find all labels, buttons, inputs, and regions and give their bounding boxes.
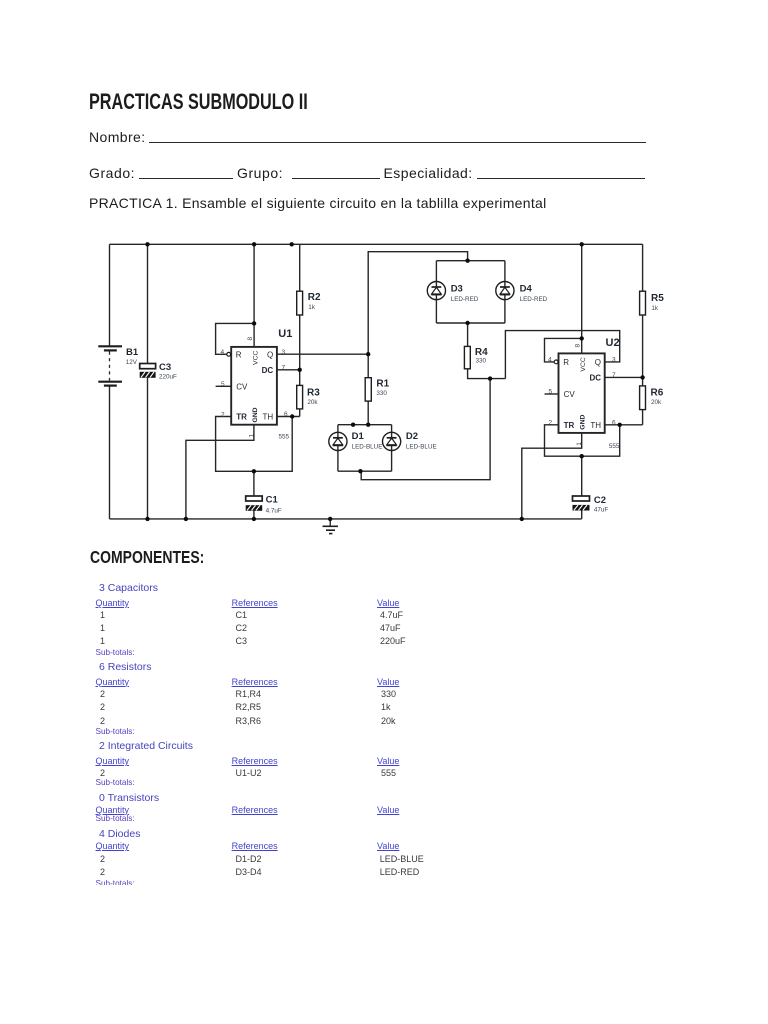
svg-text:47uF: 47uF — [594, 507, 609, 514]
svg-text:12V: 12V — [126, 359, 138, 366]
wire LED return link — [361, 379, 490, 480]
svg-text:20k: 20k — [307, 399, 318, 406]
wire C1 branch — [253, 471, 255, 519]
wire U1 pin 5 CV stub — [216, 385, 232, 387]
svg-text:Q: Q — [595, 358, 601, 367]
wire U2 TH pin 6 — [605, 424, 643, 426]
wire D1 D2 parallel frame — [338, 425, 392, 472]
capacitor C1 — [246, 495, 282, 515]
node U1 pin4 loop — [252, 321, 256, 325]
wire C2 branch — [581, 456, 583, 519]
node U1 th — [290, 414, 294, 418]
op-amp U2 555 timer body — [548, 337, 620, 450]
svg-text:555: 555 — [609, 443, 620, 450]
svg-text:6: 6 — [284, 411, 288, 418]
wire bottom rail — [110, 518, 582, 520]
node U1 dc — [298, 368, 302, 372]
junction dots — [145, 242, 645, 521]
svg-text:U1: U1 — [278, 328, 292, 340]
svg-text:VCC: VCC — [580, 357, 587, 371]
svg-text:2: 2 — [549, 420, 553, 427]
svg-text:D2: D2 — [406, 431, 418, 442]
nombre label — [89, 130, 145, 144]
especialidad blank line — [477, 178, 645, 179]
node R4 bottom — [488, 376, 492, 380]
svg-text:TH: TH — [263, 413, 274, 422]
resistor R6 — [640, 386, 664, 410]
battery B1 — [98, 346, 139, 385]
node D1 D2 bottom — [358, 469, 362, 473]
svg-text:555: 555 — [279, 434, 290, 441]
svg-text:GND: GND — [252, 407, 259, 422]
svg-text:R2: R2 — [308, 292, 321, 303]
svg-text:C1: C1 — [266, 495, 279, 506]
svg-text:C2: C2 — [594, 495, 606, 506]
section 3 Capacitors — [99, 583, 158, 594]
capacitor C2 — [573, 495, 609, 514]
wire U2 Q link to R4 node — [505, 331, 619, 379]
node C1 bottom — [252, 517, 256, 521]
svg-text:C3: C3 — [159, 362, 171, 373]
node C2 top — [580, 454, 584, 458]
resistor R1 — [365, 378, 389, 401]
crop cover — [0, 885, 768, 1024]
node D1 D2 top r1 — [366, 423, 370, 427]
nombre blank line — [149, 142, 646, 143]
svg-text:3: 3 — [612, 357, 616, 364]
svg-text:7: 7 — [612, 372, 616, 379]
svg-text:B1: B1 — [126, 347, 139, 358]
svg-text:LED-BLUE: LED-BLUE — [352, 444, 383, 451]
node D3 D4 bottom — [465, 321, 469, 325]
svg-text:4: 4 — [221, 349, 225, 356]
svg-text:R4: R4 — [475, 347, 488, 358]
section 4 Diodes — [99, 829, 140, 840]
svg-text:R1: R1 — [376, 379, 389, 390]
wire U2 pin 1 to ground rail — [522, 433, 582, 519]
svg-text:CV: CV — [236, 382, 248, 391]
section 6 Resistors — [99, 662, 152, 673]
svg-text:R: R — [236, 350, 242, 359]
svg-text:8: 8 — [575, 344, 582, 348]
diode D4 LED-RED — [496, 282, 548, 304]
svg-text:TH: TH — [590, 421, 601, 430]
svg-text:220uF: 220uF — [159, 373, 177, 380]
svg-text:VCC: VCC — [252, 351, 259, 365]
svg-text:5: 5 — [221, 381, 225, 388]
node D3 D4 top — [465, 259, 469, 263]
wire U1 DC pin 7 — [277, 369, 300, 371]
heading title — [89, 91, 308, 114]
svg-text:DC: DC — [589, 374, 601, 383]
wire C3 branch — [147, 244, 149, 519]
svg-text:D1: D1 — [352, 431, 365, 442]
node U2 gnd rail — [520, 517, 524, 521]
resistor R5 — [640, 291, 665, 315]
svg-text:LED-RED: LED-RED — [520, 296, 548, 303]
svg-text:7: 7 — [282, 365, 286, 372]
svg-text:3: 3 — [282, 349, 286, 356]
wire U1 TR to TH loop — [216, 417, 293, 472]
node U1 vcc top — [252, 242, 256, 246]
svg-text:1: 1 — [248, 434, 255, 438]
svg-text:1: 1 — [576, 442, 583, 446]
node U2 vcc top — [580, 242, 584, 246]
especialidad label — [384, 166, 473, 180]
wire U2 pin 4 reset loop — [545, 338, 582, 362]
svg-text:R5: R5 — [651, 293, 664, 304]
node C3 bottom — [145, 517, 149, 521]
node U1 q — [366, 352, 370, 356]
svg-text:1k: 1k — [651, 305, 659, 312]
componentes heading — [90, 549, 204, 567]
svg-text:330: 330 — [476, 358, 487, 365]
node C3 top — [145, 242, 149, 246]
wire R5 branch — [642, 244, 644, 377]
svg-text:CV: CV — [564, 390, 576, 399]
svg-text:330: 330 — [376, 390, 387, 397]
wire U2 pin 5 CV stub — [545, 393, 559, 395]
wire R2 branch — [299, 244, 301, 369]
wire U1 pin 8 branch — [253, 244, 255, 347]
wire R1 branch — [367, 354, 369, 425]
svg-text:5: 5 — [549, 389, 553, 396]
wire U2 DC pin 7 — [605, 376, 643, 378]
svg-text:4.7uF: 4.7uF — [266, 508, 282, 515]
wire U1 Q output pin 3 — [277, 353, 368, 355]
svg-text:Q: Q — [267, 350, 273, 359]
practica instruction — [89, 196, 547, 210]
op-amp U1 555 timer body — [221, 328, 293, 441]
node U2 pin4 loop — [580, 336, 584, 340]
wire D3 D4 parallel frame — [436, 261, 505, 323]
node U2 th — [618, 423, 622, 427]
wire U1 pin 4 reset loop — [216, 323, 255, 354]
diode D1 LED-BLUE — [329, 431, 383, 451]
wire U2 pin 8 branch — [581, 244, 583, 353]
svg-text:GND: GND — [579, 415, 586, 430]
wire U2 TR to TH loop — [545, 425, 620, 456]
ground — [323, 519, 339, 534]
wire R3 branch — [299, 370, 301, 417]
node C1 top — [252, 469, 256, 473]
svg-text:R: R — [563, 358, 569, 367]
grupo label — [237, 166, 283, 180]
wire U1 TH pin 6 — [277, 416, 300, 418]
node U2 dc — [640, 375, 644, 379]
resistor R2 — [297, 291, 321, 315]
resistor R3 — [297, 385, 321, 409]
svg-text:20k: 20k — [651, 399, 662, 406]
node ground tap — [328, 517, 332, 521]
grupo blank line — [292, 178, 380, 179]
wire R4 branch — [468, 323, 506, 379]
svg-text:R6: R6 — [651, 388, 664, 399]
section 0 Transistors — [99, 793, 159, 804]
svg-text:LED-RED: LED-RED — [451, 296, 479, 303]
svg-text:8: 8 — [247, 337, 254, 341]
node rail R2 — [290, 242, 294, 246]
wire U1 pin 1 to ground rail — [186, 425, 254, 519]
svg-text:D4: D4 — [520, 283, 533, 294]
svg-text:4: 4 — [548, 357, 552, 364]
svg-text:TR: TR — [564, 421, 575, 430]
svg-text:TR: TR — [236, 413, 247, 422]
svg-text:2: 2 — [221, 411, 225, 418]
svg-text:DC: DC — [262, 366, 274, 375]
svg-text:6: 6 — [612, 419, 616, 426]
wire battery bottom lead — [109, 386, 111, 519]
diode D2 LED-BLUE — [383, 431, 437, 451]
svg-text:D3: D3 — [451, 283, 463, 294]
wire battery top lead — [109, 244, 111, 346]
node U1 gnd rail — [184, 517, 188, 521]
svg-text:1k: 1k — [308, 304, 316, 311]
grado label — [89, 166, 135, 180]
node D1 D2 top left — [351, 423, 355, 427]
wire Q node to D3 D4 top — [368, 252, 467, 355]
diode D3 LED-RED — [427, 282, 478, 304]
wire top rail — [110, 243, 643, 245]
resistor R4 — [464, 346, 488, 368]
capacitor C3 — [140, 362, 177, 380]
svg-text:R3: R3 — [307, 388, 320, 399]
wire R6 branch — [642, 377, 644, 424]
grado blank line — [139, 178, 233, 179]
svg-text:U2: U2 — [606, 337, 620, 349]
svg-text:LED-BLUE: LED-BLUE — [406, 444, 437, 451]
section 2 Integrated Circuits — [99, 741, 193, 752]
